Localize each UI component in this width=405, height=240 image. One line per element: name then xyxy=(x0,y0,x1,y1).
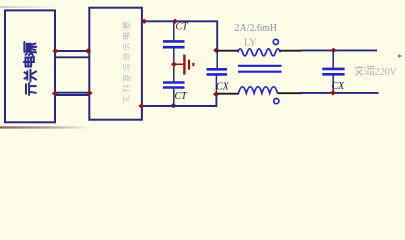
wire W2 bottom pair between blocks xyxy=(55,92,90,94)
block U2 rectifier filter box xyxy=(89,8,142,120)
scan artifact top-left xyxy=(0,6,58,8)
cursor mark xyxy=(398,54,402,58)
svg-text:CT: CT xyxy=(176,22,190,33)
wire top rail from U2 to corner xyxy=(143,21,217,50)
junction CX2 bottom xyxy=(330,90,336,95)
wire CX2 bottom lead xyxy=(332,75,334,93)
capacitor CX xyxy=(207,68,228,71)
junction CX top xyxy=(213,48,219,53)
junction at U2 pin bottom xyxy=(86,90,92,95)
svg-text:CX: CX xyxy=(216,81,230,92)
inductor LY top winding xyxy=(238,49,280,56)
label 开关电源 (vertical) xyxy=(24,42,37,95)
pin stub choke bottom-right xyxy=(278,92,303,94)
svg-text:220V: 220V xyxy=(375,67,398,78)
wire CT bottom lead xyxy=(173,89,175,106)
wire bottom rail right xyxy=(301,92,379,94)
svg-text:CT: CT xyxy=(175,91,189,102)
capacitor CT top xyxy=(163,40,185,43)
svg-text:CX: CX xyxy=(332,81,346,92)
pin stub choke top-left xyxy=(217,50,238,52)
svg-text:2A/2.6mH: 2A/2.6mH xyxy=(235,23,278,34)
junction at U2 right pin bottom xyxy=(138,103,144,108)
ground bar 3 xyxy=(192,63,194,66)
pin stub choke bottom-left xyxy=(217,93,239,95)
ground junction xyxy=(171,62,177,67)
wire between CT caps xyxy=(173,48,175,82)
label 交流220V xyxy=(355,66,375,76)
capacitor CX2 xyxy=(322,68,344,71)
terminal circle bottom xyxy=(274,99,279,104)
label 不控整流滤波电源 (vertical, faint) xyxy=(122,21,130,102)
choke core line 1 xyxy=(238,65,282,67)
junction CT bottom tap xyxy=(170,103,176,108)
choke core line 2 xyxy=(238,71,282,73)
wire CX top lead xyxy=(216,50,218,68)
ground bar 1 xyxy=(183,55,185,75)
terminal circle top xyxy=(273,39,278,44)
svg-text:LY: LY xyxy=(244,38,256,49)
wire top rail right xyxy=(301,49,377,51)
ground bar 2 xyxy=(188,60,190,70)
capacitor CT bottom xyxy=(163,81,185,84)
wire CX2 top lead xyxy=(332,50,334,67)
junction at U2 pin top xyxy=(85,48,91,53)
junction at U1 pin top xyxy=(52,48,58,53)
inductor LY bottom winding xyxy=(239,87,278,94)
junction at U1 pin bottom xyxy=(52,91,58,96)
wire CX bottom lead xyxy=(215,76,217,95)
junction CX2 top xyxy=(330,48,336,53)
junction at U2 right pin top xyxy=(141,19,147,24)
scan artifact bottom-left xyxy=(0,126,90,128)
pin stub choke top-right xyxy=(280,50,302,52)
junction CX bottom xyxy=(213,92,219,97)
junction CT top tap xyxy=(172,19,178,24)
wire W1 top pair between blocks xyxy=(55,50,90,52)
wire CT top lead xyxy=(173,22,175,41)
wire bottom rail from U2 to corner xyxy=(142,94,217,106)
ground lead xyxy=(174,63,184,65)
block U1 switching power supply box xyxy=(5,10,55,122)
